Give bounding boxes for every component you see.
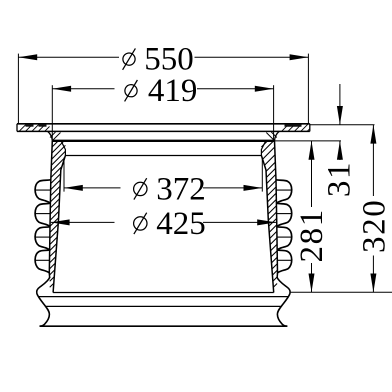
dim 419 extension line right xyxy=(273,85,275,140)
dim 372 line xyxy=(64,187,121,189)
flange hatching left xyxy=(19,124,27,132)
neck hatching left xyxy=(50,132,56,138)
svg-text:372: 372 xyxy=(156,172,206,208)
neck hatching right xyxy=(271,132,277,138)
bellows convolution 4 right xyxy=(277,250,291,274)
left wall inner edge xyxy=(53,156,65,293)
bellows convolution 4 left xyxy=(35,250,49,274)
flange top edge xyxy=(17,123,310,125)
flange left end edge xyxy=(16,124,18,132)
dim 550 extension line right xyxy=(307,54,309,124)
left wall outer edge xyxy=(49,141,52,278)
svg-text:425: 425 xyxy=(156,206,206,242)
base top edge xyxy=(53,292,274,294)
bellows convolution 3 right xyxy=(277,227,292,251)
ledge inner corner right xyxy=(261,142,265,156)
svg-text:31: 31 xyxy=(322,161,358,197)
dim 425 diameter symbol xyxy=(134,217,147,230)
dim 372 extension line right xyxy=(261,158,263,192)
dim 419 line xyxy=(52,88,114,90)
flange hatching right xyxy=(282,124,290,132)
dim 31 lower leader and arrow xyxy=(339,141,341,160)
dim 320 line upper xyxy=(372,125,374,196)
ledge inner corner left xyxy=(62,142,66,156)
right wall outer edge xyxy=(275,141,278,278)
neck curve right xyxy=(275,131,280,140)
flange right end edge xyxy=(309,124,311,132)
dim 550 diameter symbol xyxy=(123,53,135,65)
dim 320 line lower xyxy=(372,256,374,293)
bellows convolution 3 left xyxy=(35,227,50,251)
bellows convolution 1 right xyxy=(276,180,292,204)
base right outer S-profile xyxy=(277,277,290,326)
base middle edge xyxy=(46,305,281,307)
svg-text:281: 281 xyxy=(294,208,330,262)
bellows convolution 2 left xyxy=(35,203,50,227)
flange bottom edge xyxy=(17,130,310,132)
left wall hatching xyxy=(52,142,58,148)
reference line at ledge level xyxy=(274,140,341,142)
right wall hatching xyxy=(261,142,267,148)
dim 372 diameter symbol xyxy=(134,182,147,195)
neck curve left xyxy=(48,131,53,140)
bellows convolution 1 left xyxy=(35,180,51,204)
dim 419 diameter symbol xyxy=(125,85,137,97)
svg-text:320: 320 xyxy=(357,199,392,253)
dim 281 line upper xyxy=(311,141,313,207)
bellows convolution 2 right xyxy=(277,203,292,227)
svg-text:419: 419 xyxy=(148,73,198,109)
inner ledge top edge (thick) xyxy=(52,140,274,142)
bottom reference line (base top) xyxy=(290,291,392,293)
dim 550 extension line left xyxy=(17,54,19,124)
base bottom edge xyxy=(40,325,288,327)
right wall inner edge xyxy=(261,156,273,293)
dim 425 line xyxy=(51,221,115,223)
dim 281 line lower xyxy=(311,263,313,292)
dim 31 upper leader and arrow xyxy=(339,84,341,125)
flange top face thick marks left xyxy=(26,124,34,126)
flange top face thick mark right xyxy=(285,124,302,126)
dim 372 extension line left xyxy=(63,158,65,192)
base left outer S-profile xyxy=(37,277,50,326)
inner ledge bottom edge xyxy=(65,155,261,157)
dim 550 line xyxy=(18,56,119,58)
top reference line (flange top) xyxy=(310,124,375,126)
base seat edge xyxy=(38,296,289,298)
dim 419 extension line left xyxy=(51,85,53,140)
